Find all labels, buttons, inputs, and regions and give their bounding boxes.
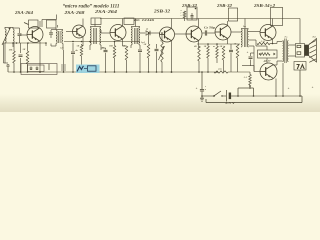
bottom scan shadow: [0, 94, 320, 112]
wire Q3 collector up: [122, 19, 124, 27]
svg-text:aε: aε: [102, 47, 104, 49]
transistor Q7 output upper: [260, 25, 276, 41]
impedance mark lambda: [301, 65, 305, 70]
resistor R4: [113, 46, 116, 59]
wire top rail left segment: [42, 19, 57, 21]
highlight squiggle: [84, 68, 87, 70]
svg-text:2SA-264: 2SA-264: [14, 10, 34, 15]
wire OT bottom down: [282, 63, 284, 96]
svg-text:+: +: [288, 87, 290, 91]
speaker cone: [309, 39, 317, 63]
svg-text:AAA: AAA: [260, 40, 266, 43]
shield box outer: [21, 64, 57, 75]
wire Q5 base from volume: [175, 33, 186, 35]
svg-text:5K: 5K: [77, 46, 80, 48]
wire Q2 emitter down: [82, 37, 84, 46]
wire Q3 emitter down: [122, 39, 124, 46]
highlight marker cyan: [76, 65, 100, 74]
svg-text:A.A: A.A: [243, 76, 248, 79]
svg-text:2SA-264: 2SA-264: [94, 9, 119, 14]
box B6: [228, 8, 237, 21]
wire base Q1: [20, 34, 28, 36]
wire bias rail mid: [64, 41, 140, 43]
svg-text:ams: ams: [218, 69, 222, 71]
IFT2 winding A: [90, 27, 91, 45]
svg-text:+: +: [312, 86, 314, 90]
resistor R14 below bus: [249, 72, 251, 75]
terminal box 2: [294, 62, 306, 71]
trimmer box 1: [29, 20, 39, 28]
wire DT in: [231, 31, 241, 33]
ferrite antenna coil primary: [5, 29, 6, 43]
resistor R7 top: [183, 11, 185, 18]
wire Q1 collector up: [39, 21, 41, 27]
bus junction dots: [13, 71, 15, 73]
transistor Q8 output lower: [260, 63, 277, 80]
DT core: [243, 29, 245, 47]
resistor R9: [207, 46, 210, 58]
svg-text:s: s: [180, 15, 182, 17]
resistor inside box: [260, 53, 270, 56]
wire IFT1 to bias: [45, 43, 47, 46]
loop up rectangle: [237, 88, 239, 96]
svg-text:4K: 4K: [193, 45, 197, 48]
transistor Q6 driver: [215, 24, 231, 40]
wire bottom return: [300, 95, 302, 97]
shield box inner: [28, 65, 45, 72]
IFT1 capacitor: [50, 30, 52, 32]
node Q1 emitter bus: [39, 71, 41, 73]
resistor R13 horizontal: [255, 40, 257, 44]
svg-text:+: +: [196, 87, 198, 91]
resistor R12: [236, 44, 239, 58]
wire box up: [266, 46, 268, 50]
node battery feed: [201, 95, 203, 97]
wire left bus corner: [4, 62, 9, 64]
IFT1 winding B: [62, 30, 63, 44]
DT winding B: [247, 29, 248, 47]
svg-text:2K: 2K: [143, 44, 147, 46]
wire Q8 emitter down: [275, 79, 277, 97]
highlight small box: [88, 66, 97, 71]
speaker terminal box: [296, 44, 305, 58]
svg-text:1.5 V: 1.5 V: [225, 101, 236, 105]
IFT3 winding B: [139, 27, 140, 45]
wire x64 down: [63, 50, 65, 72]
IFT2 winding B: [100, 27, 101, 45]
tuning gang capacitor: [18, 33, 22, 35]
ground bus main: [8, 71, 218, 73]
speaker driver magnet: [305, 45, 309, 56]
OT core: [284, 39, 286, 64]
IFT1 core: [58, 31, 60, 43]
resistor R1: [13, 43, 15, 51]
transistor Q1 converter: [27, 27, 43, 43]
wire bus tail to right: [228, 71, 250, 73]
IFT1 winding A: [56, 30, 57, 44]
resistor R5: [125, 46, 128, 60]
tick in shield: [48, 64, 50, 70]
transistor Q4 detector/AF: [160, 27, 175, 42]
bus left ground arrow: [7, 66, 9, 72]
wire Q5 emitter down: [198, 41, 200, 49]
tick pair right of shield: [61, 64, 63, 71]
wire diode to volume: [150, 32, 160, 34]
wire speaker top: [299, 19, 301, 44]
node AVC-antenna: [12, 42, 14, 44]
svg-text:1K: 1K: [234, 44, 237, 46]
OT winding B: [287, 41, 288, 62]
wire box down to Q8: [266, 58, 268, 63]
terminal mark upper: [297, 45, 301, 47]
wire DT center tap: [249, 39, 257, 41]
node B5: [195, 8, 197, 10]
wire Q5 collector up: [198, 19, 200, 28]
wire DT out bottom: [249, 45, 255, 47]
svg-text:2SB-32: 2SB-32: [216, 3, 233, 8]
IFT2 top wires: [90, 26, 101, 28]
volume pot R7: [161, 33, 163, 42]
resistor R2: [27, 43, 29, 51]
IFT1 top wires: [51, 29, 63, 31]
capacitor C1: [20, 43, 22, 53]
terminal mark lower: [297, 52, 301, 55]
transistor Q5 AF amp: [186, 26, 202, 42]
resistor R6 detector load: [148, 33, 150, 44]
box B5: [187, 7, 197, 20]
transistor Q2 1st IF: [73, 25, 86, 38]
wire Q4 collector up: [171, 19, 173, 29]
speaker cone hatch: [309, 41, 316, 44]
wire Q4 base: [159, 33, 161, 35]
box B7: [271, 7, 283, 25]
wire Q7 emitter down: [272, 39, 274, 44]
resistor R11: [222, 46, 225, 60]
DT top wires: [241, 28, 249, 30]
wire Q1 emitter down: [39, 42, 41, 73]
resistor R10: [216, 46, 219, 58]
svg-text:2SA-268: 2SA-268: [63, 10, 85, 15]
svg-text:af: af: [146, 29, 148, 31]
svg-text:+: +: [247, 51, 249, 55]
wire antenna to tuning cap: [13, 27, 20, 29]
IFT2 bottom wires: [89, 45, 91, 48]
svg-text:2K: 2K: [22, 49, 26, 51]
coupling capacitor C6: [203, 32, 205, 34]
svg-text:121: 121: [60, 48, 63, 50]
OT winding A: [283, 41, 284, 62]
wire Q8 base: [253, 66, 255, 72]
svg-text:1K: 1K: [123, 46, 126, 48]
paper background: [0, 0, 320, 112]
svg-text:Cε 50μ: Cε 50μ: [204, 26, 215, 30]
IFT1 bottom wires: [50, 44, 52, 47]
impedance mark 7: [297, 65, 300, 70]
tuning arrow: [2, 28, 11, 46]
wire switch to battery: [222, 95, 226, 97]
wire Q3 base: [101, 32, 110, 34]
wire into box1: [24, 23, 29, 25]
volume wiper arrow: [159, 46, 165, 60]
transistor Q3 2nd IF: [110, 25, 126, 41]
highlight dark blob: [77, 66, 83, 72]
wire Q4 emitter down: [171, 41, 173, 73]
IFT2 core: [93, 28, 95, 44]
wire Q2 collector up: [82, 19, 84, 27]
OT secondary wires: [289, 44, 296, 46]
IFT3 top wire: [131, 26, 140, 28]
wire battery line right: [237, 95, 239, 97]
capacitor C3: [105, 48, 107, 50]
IFT3 bottom wires: [130, 45, 132, 48]
wire down from bus to battery line: [201, 72, 203, 89]
wire Q6 emitter down: [227, 39, 229, 45]
diode D1: [140, 32, 145, 34]
svg-text:aε: aε: [213, 46, 215, 48]
trimmer box above IFT2: [91, 18, 101, 25]
wire Q7 collector up: [272, 19, 274, 27]
wire DT out top to Q7 base: [249, 31, 261, 33]
wire Q8 collector to OT: [273, 64, 277, 66]
capacitor inside B5: [191, 13, 193, 15]
electrolytic C8: [250, 53, 252, 56]
electrolytic C9 on feed: [200, 89, 204, 91]
wire antenna coil tops: [5, 27, 13, 29]
capacitor C7: [230, 44, 232, 50]
capacitor C5: [156, 44, 158, 49]
svg-text:ε: ε: [205, 86, 206, 88]
trimmer box 2: [47, 20, 57, 28]
wire speaker return: [299, 70, 301, 96]
svg-text:2SB-32: 2SB-32: [153, 9, 171, 14]
ground mark below feed: [201, 96, 203, 98]
wire top rail main: [100, 18, 300, 20]
wire AVC rail left: [4, 42, 47, 44]
tick right of box2: [57, 25, 59, 28]
IFT3 winding A: [131, 27, 132, 45]
wire battery line: [202, 95, 214, 97]
node Q4 emitter: [171, 71, 173, 73]
resistor R3 Q2 emitter: [80, 45, 83, 56]
thermistor box AB-77: [258, 50, 278, 58]
IFT3 core: [134, 28, 136, 44]
svg-text:2K: 2K: [219, 46, 223, 48]
svg-text:F.s: F.s: [285, 36, 288, 39]
svg-text:10K: 10K: [9, 50, 13, 52]
wire Q6 collector up: [227, 21, 229, 26]
padder symbols inside: [30, 67, 32, 70]
wire mid rail right: [197, 43, 240, 45]
antenna coil secondary: [13, 29, 14, 43]
trimmer box above IFT3: [124, 18, 134, 25]
wire bus tail resistor: [214, 71, 228, 73]
resistor R8: [198, 46, 201, 61]
wire Q2 base: [66, 31, 73, 33]
battery B1: [226, 90, 228, 102]
wire rail stub up: [56, 15, 58, 20]
DT winding A: [241, 29, 242, 47]
capacitor C2: [72, 43, 74, 51]
capacitor C4: [138, 49, 142, 51]
svg-text:Irs: Irs: [242, 25, 246, 28]
switch S1: [213, 95, 215, 97]
svg-text:56K: 56K: [109, 46, 113, 48]
wire Q7 collector to OT: [273, 43, 278, 45]
svg-text:1K: 1K: [204, 46, 207, 48]
